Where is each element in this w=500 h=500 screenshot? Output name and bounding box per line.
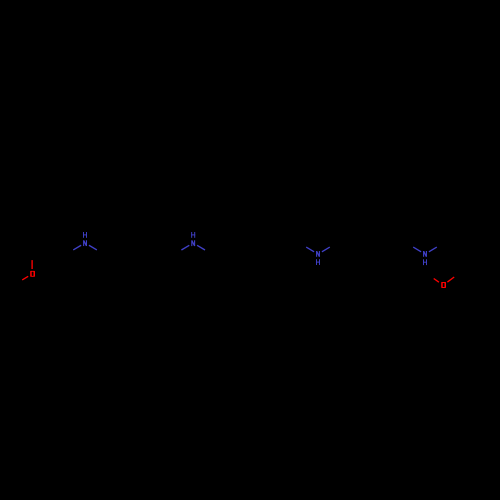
- atom N3 amine: N label: [316, 251, 320, 257]
- bond O1-CH2(aryl) red half, vertical: [31, 260, 33, 269]
- bond N2-C right blue half: [197, 245, 205, 250]
- atom O2 ether oxygen label: [441, 282, 446, 288]
- bond N4-C left blue half: [413, 247, 421, 252]
- atom N4 amine: H label below: [423, 259, 427, 265]
- bond N2-C left blue half: [181, 245, 189, 250]
- atom N2 amine: H label: [191, 232, 195, 238]
- bond O2-C(aryl) left red half: [434, 279, 439, 283]
- atom N1 amine: H label: [83, 232, 87, 238]
- atom N4 amine: N label: [423, 251, 427, 257]
- atom N1 amine: N label: [83, 240, 87, 246]
- bond N4-C right blue half: [429, 247, 437, 252]
- bond N1-C right blue half: [89, 245, 97, 250]
- bond N1-C left blue half: [73, 245, 81, 250]
- bond O1-CH3 red half, diagonal: [22, 276, 28, 280]
- bond N3-C right blue half: [322, 247, 330, 252]
- bond O2-CH2 right red half: [447, 277, 454, 282]
- atom O1 methoxy oxygen label: [30, 271, 35, 277]
- bond N3-C left blue half: [306, 247, 314, 252]
- atom N2 amine: N label: [191, 240, 195, 246]
- atom N3 amine: H label below: [316, 259, 320, 265]
